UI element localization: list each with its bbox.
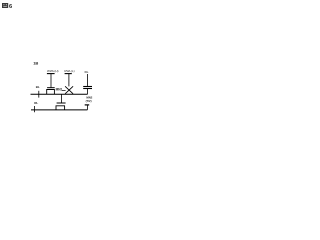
transistor MN1 gate bar [47, 87, 55, 89]
svg-text:(T/2): (T/2) [86, 99, 92, 103]
svg-text:RL: RL [34, 101, 38, 105]
wire capacitor bottom lead [87, 89, 89, 94]
svg-text:1B: 1B [33, 60, 38, 65]
terminal T-bar RWL [65, 73, 72, 75]
svg-text:WWL(H): WWL(H) [47, 69, 59, 73]
figure caption 图6 [2, 3, 13, 10]
wire lower rail [31, 109, 87, 111]
wire gate lead MN1 [50, 74, 52, 88]
wire upper rail [31, 93, 88, 95]
transistor MN1 channel hump [47, 90, 55, 95]
capacitor CL top plate [83, 86, 92, 88]
transistor MN2 gate bar [57, 102, 66, 104]
wire capacitor top lead [87, 74, 89, 87]
svg-text:BL: BL [36, 85, 40, 89]
transistor MN2 channel hump [56, 106, 65, 110]
terminal T-bar WWL [47, 73, 55, 75]
wire gate lead MN2 [61, 94, 63, 103]
wire stub into X [62, 90, 66, 92]
svg-text:MN1: MN1 [56, 87, 63, 91]
capacitor CL bottom plate [83, 88, 92, 90]
svg-text:CL: CL [85, 70, 89, 74]
terminal T-bar plate [85, 104, 90, 106]
tick on lower rail [33, 106, 35, 112]
svg-text:RWL(L): RWL(L) [64, 69, 74, 73]
tick on upper rail [38, 91, 40, 98]
wire plate terminal lead [86, 105, 88, 110]
svg-text:6: 6 [9, 4, 13, 10]
wire lead to X [68, 74, 70, 87]
defect mark X [65, 86, 73, 94]
